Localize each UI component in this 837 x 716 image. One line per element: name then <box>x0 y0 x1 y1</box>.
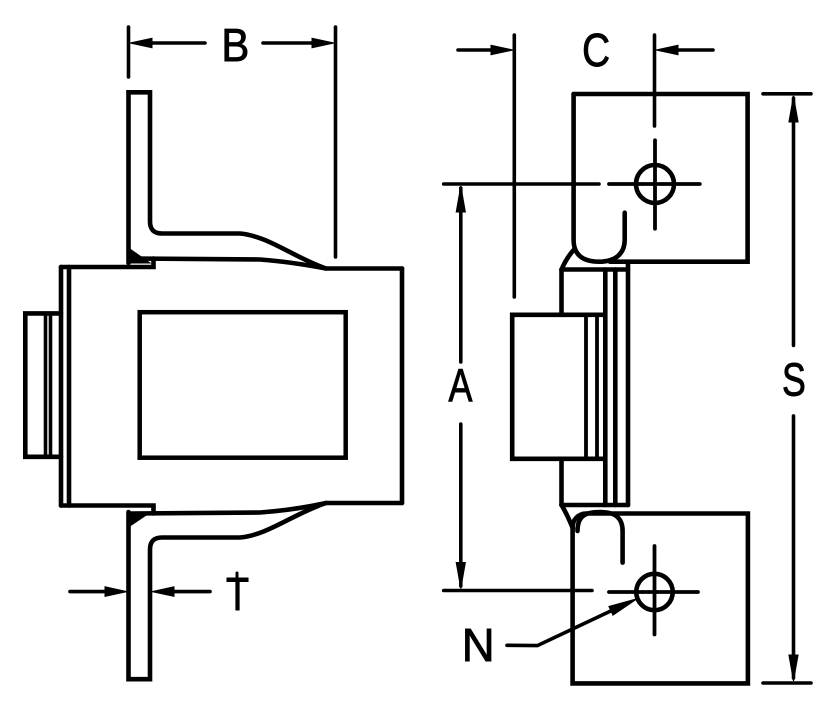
dimension C arrow right <box>656 45 713 55</box>
neck inner line 2 <box>613 270 618 506</box>
lower hole horizontal centerline <box>609 590 698 594</box>
bottom flange top line <box>131 503 326 514</box>
left boss inner line 1 <box>44 313 48 456</box>
dimension S arrow up <box>789 96 798 122</box>
body bottom edge with step <box>61 506 154 514</box>
dimension B extension line left <box>127 27 131 77</box>
lower tab outline <box>573 514 748 684</box>
dimension S top extension line <box>763 92 811 96</box>
dimension S line lower <box>792 416 796 678</box>
lower hole <box>636 574 672 610</box>
neck upper-left swoop <box>562 250 574 270</box>
upper tab left edge and bend relief U <box>574 94 625 262</box>
svg-text:N: N <box>462 620 495 671</box>
dimension A arrow down <box>456 563 465 589</box>
dimension B extension line right <box>334 27 338 257</box>
neck bottom edge <box>562 503 629 508</box>
dimension S arrow down <box>789 655 798 681</box>
neck left edge lower <box>559 459 564 505</box>
dimension A arrow up <box>456 186 465 212</box>
bottom flange bend fillet <box>127 513 150 529</box>
body right edge <box>400 269 405 504</box>
front boss outline <box>512 315 605 459</box>
top flange outline <box>129 92 403 268</box>
dimension C extension line left <box>512 35 516 297</box>
front boss inner line 1 <box>584 315 588 459</box>
body left edge outer <box>59 267 64 506</box>
dimension S line upper <box>792 98 796 345</box>
dimension C extension line right <box>653 35 657 126</box>
dimension T arrow left <box>70 587 127 597</box>
neck right edge <box>626 262 631 505</box>
upper hole horizontal centerline <box>609 182 700 186</box>
neck inner line 1 <box>603 270 608 506</box>
window rectangle <box>140 312 346 458</box>
leader N arrowhead <box>609 599 637 615</box>
neck lower-left swoop <box>562 505 573 529</box>
upper hole <box>636 165 674 203</box>
dimension A line upper <box>459 188 463 362</box>
body top edge with step <box>61 259 154 268</box>
dimension B arrow left <box>130 38 205 48</box>
dimension C arrow left <box>458 45 513 55</box>
upper tab outline <box>574 94 748 262</box>
bottom flange outline <box>129 503 403 679</box>
dimension T arrow right <box>152 587 210 597</box>
dimension A top extension line <box>444 182 599 186</box>
front boss inner line 2 <box>595 315 599 459</box>
leader N line <box>507 609 616 646</box>
left boss inner line 2 <box>49 313 53 456</box>
upper hole vertical centerline <box>653 140 657 228</box>
dimension A bottom extension line <box>444 589 592 593</box>
lower tab bend relief arch <box>578 512 623 563</box>
neck left edge upper <box>559 270 564 315</box>
left boss outline <box>25 313 61 456</box>
svg-text:S: S <box>782 354 806 405</box>
dimension A line lower <box>459 424 463 586</box>
svg-text:A: A <box>448 360 472 411</box>
body left edge inner <box>67 267 72 506</box>
dimension B arrow right <box>263 38 334 48</box>
lower hole vertical centerline <box>653 546 657 635</box>
dimension S bottom extension line <box>763 681 811 685</box>
svg-text:B: B <box>221 20 249 71</box>
top flange bend fillet <box>127 247 150 263</box>
svg-text:C: C <box>582 25 610 76</box>
neck top edge <box>562 267 629 272</box>
label T top tick <box>236 573 239 578</box>
top flange bottom line <box>131 259 326 269</box>
